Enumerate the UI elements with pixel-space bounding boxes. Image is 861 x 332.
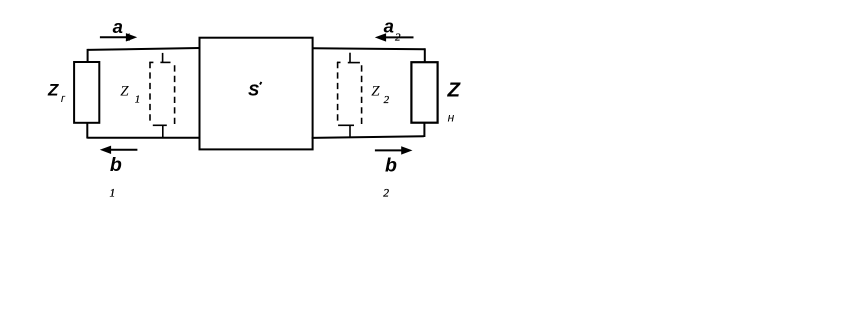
svg-text:Z: Z — [120, 83, 129, 99]
terminator mark top-right (⊥) — [348, 53, 360, 63]
arrow b1 (reflected wave port 1) — [100, 146, 138, 154]
svg-text:н: н — [448, 110, 455, 124]
wire Zн top stub — [424, 48, 426, 62]
wire Zг top stub — [87, 49, 89, 63]
resistor Zг (generator impedance) — [74, 62, 99, 123]
wire Zн bottom stub — [423, 122, 425, 137]
resistor Zн (load impedance) — [411, 62, 437, 122]
svg-text:Z: Z — [447, 79, 462, 102]
svg-text:S: S — [248, 83, 259, 100]
svg-text:Z: Z — [371, 84, 380, 100]
arrow b2 (reflected wave port 2) — [375, 146, 413, 154]
svg-text:b: b — [385, 154, 397, 176]
label b1 — [110, 154, 122, 200]
svg-text:a: a — [384, 16, 394, 37]
svg-text:1: 1 — [110, 188, 116, 200]
svg-text:a: a — [113, 16, 123, 37]
svg-text:г: г — [60, 92, 67, 105]
label Z2 — [371, 84, 389, 107]
svg-text:b: b — [110, 154, 122, 176]
wire top-left (node 1 top) — [88, 48, 200, 50]
wire bottom-right (node 2 bottom) — [312, 136, 424, 138]
reference plane Z1 (dashed box) — [149, 62, 174, 124]
label S′ — [248, 82, 261, 100]
two-port network box S′ (U1) — [200, 38, 313, 150]
label Z1 — [120, 83, 140, 105]
label b2 — [383, 154, 397, 199]
terminator mark top-left (⊥) — [160, 53, 170, 63]
wire Zг bottom stub — [86, 123, 88, 139]
label Zн — [447, 79, 462, 125]
terminator mark bottom-left (T) — [153, 125, 167, 137]
svg-text:Z: Z — [47, 81, 59, 100]
label a2 — [384, 16, 401, 44]
arrow a2 (incident wave port 2) — [375, 33, 414, 41]
wire bottom-left (node 1 bottom) — [87, 137, 199, 139]
label a1 — [113, 16, 131, 44]
arrow a1 (incident wave port 1) — [100, 33, 137, 41]
reference plane Z2 (dashed box) — [337, 62, 362, 124]
label Zг — [47, 81, 67, 106]
svg-text:1: 1 — [135, 93, 141, 105]
svg-text:2: 2 — [384, 94, 390, 106]
terminator mark bottom-right (T) — [338, 125, 354, 137]
svg-text:2: 2 — [383, 188, 389, 200]
wire top-right (node 2 top) — [313, 47, 425, 50]
